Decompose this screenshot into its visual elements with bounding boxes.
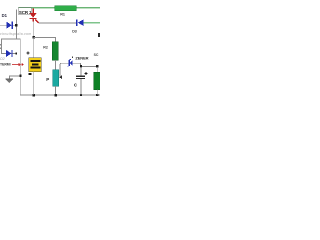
wire battery to bus — [32, 72, 35, 95]
svg-text:c: c — [74, 82, 77, 88]
diode D2 — [6, 50, 13, 57]
svg-text:R1: R1 — [60, 12, 65, 16]
battery B1 — [29, 58, 42, 72]
diode D1 — [6, 22, 12, 29]
wire center junction to R2 — [33, 36, 56, 39]
wire zener right lead — [72, 63, 81, 67]
wire left rail lower (x20.5) — [19, 39, 22, 96]
node D1 junction — [15, 24, 17, 26]
svg-text:D3: D3 — [72, 30, 77, 34]
capacitor C1 — [76, 67, 85, 95]
wire left horizontal y38.5 — [1, 38, 21, 41]
wire right node horizontal — [80, 65, 98, 68]
svg-text:D2: D2 — [0, 57, 4, 61]
preset P (teal resistor) — [53, 70, 59, 87]
wire center vertical to battery — [32, 37, 35, 58]
wire gate horizontal — [38, 21, 76, 24]
node R5 junction — [96, 65, 98, 67]
svg-text:circuitspedia.com: circuitspedia.com — [0, 32, 31, 36]
node capacitor junction — [80, 65, 82, 67]
svg-text:TERMI: TERMI — [0, 63, 11, 67]
svg-text:R2: R2 — [43, 45, 48, 49]
wire bottom bus — [20, 94, 100, 97]
wire top green bus — [19, 7, 100, 9]
node center junction — [33, 36, 35, 38]
wire left rail upper (x16) — [15, 10, 18, 40]
wire ground horizontal — [9, 74, 21, 77]
diode D3 — [76, 19, 83, 26]
node battery bus junction — [33, 94, 35, 96]
node ground junction — [19, 75, 21, 77]
svg-text:D1: D1 — [2, 13, 8, 18]
mark right edge blob — [98, 33, 100, 37]
resistor R1 — [55, 6, 76, 11]
svg-text:SC: SC — [94, 53, 99, 57]
label battery plus — [26, 51, 29, 54]
resistor R2 — [52, 42, 58, 60]
wire preset to bus — [54, 86, 57, 95]
wire left border vertical (x1.5) — [0, 39, 3, 54]
label C plus — [85, 72, 88, 75]
mark comma before zener — [72, 57, 73, 59]
node preset bus junction — [54, 94, 56, 96]
wire R2 to preset — [54, 60, 57, 70]
wire D3 green lead — [84, 22, 101, 23]
svg-text:P: P — [46, 77, 49, 82]
zener diode ZD — [67, 59, 72, 67]
wire D1 lead — [0, 24, 17, 27]
label battery minus — [28, 73, 31, 75]
svg-text:SCR 1: SCR 1 — [19, 10, 32, 15]
mark left edge fragments — [0, 44, 1, 45]
annotation red arrow to terminal — [12, 63, 23, 67]
resistor R5 — [94, 67, 100, 95]
wire D2 lead — [1, 52, 17, 55]
label SCR 1 box — [18, 8, 32, 15]
node R5 bus junction — [96, 94, 98, 96]
node capacitor bus junction — [80, 94, 82, 96]
node D2 junction — [15, 52, 17, 54]
wire zener left hook to preset wiper — [59, 63, 69, 79]
wire SCR cathode vertical — [32, 21, 35, 37]
svg-text:ZENER: ZENER — [75, 55, 88, 60]
SCR1 thyristor — [29, 8, 39, 23]
ground — [5, 75, 12, 83]
